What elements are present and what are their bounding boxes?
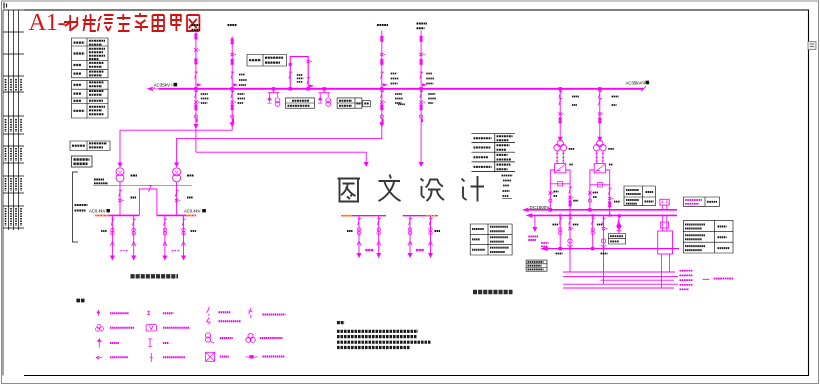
- neg bus outgoing labels: [556, 253, 608, 255]
- LV section caption: [131, 274, 179, 278]
- bus tie bridge: [289, 57, 313, 91]
- svg-text:DC1500V: DC1500V: [530, 205, 551, 210]
- LV bus section I: [95, 214, 139, 216]
- DC feeder 4 below bus: [601, 215, 607, 284]
- branch 2 circuit label: [612, 97, 619, 106]
- service bus A label: [347, 230, 353, 232]
- feeder 1 name label: [192, 25, 201, 30]
- DC 1500V busbar: [524, 208, 678, 217]
- legend sym motor isolator: [205, 333, 210, 338]
- svg-text:AC35kV I: AC35kV I: [154, 82, 173, 87]
- PT branch 1 data table: [286, 98, 315, 108]
- title CJK glyph strokes: [64, 13, 199, 31]
- watermark tu wen she ji: [338, 175, 485, 202]
- DC feeder 3 below bus: [591, 215, 595, 249]
- svg-text:AC35kV/II: AC35kV/II: [626, 80, 645, 85]
- legend sym arrester: [98, 339, 101, 348]
- spare feeder table: [609, 234, 626, 245]
- notes block: [337, 323, 431, 348]
- HV equipment schedule text: [74, 41, 106, 114]
- feeder 2 circuit labels: [238, 75, 248, 104]
- branch 1 device labels: [554, 149, 579, 201]
- left margin revision strip table: [3, 10, 24, 376]
- negative bus label: [541, 243, 549, 246]
- branch 1 circuit label: [572, 97, 579, 106]
- outgoing DC cable runs: [563, 272, 678, 288]
- legend title: [76, 299, 85, 303]
- HV equipment schedule table upper: [72, 38, 109, 118]
- incoming feeder 4: [419, 31, 425, 166]
- DC feeder 2 below bus: [567, 215, 573, 272]
- rectifier transformer branch 2: [588, 88, 613, 216]
- 2T breaker label: [187, 197, 193, 199]
- legend sym operating switch: [248, 308, 252, 318]
- LV feeder 2: [132, 215, 136, 259]
- svg-text:AC0.4kV I: AC0.4kV I: [89, 209, 108, 214]
- rectifier transformer branch 1: [549, 88, 574, 216]
- cable schedule side labels: [502, 176, 513, 199]
- legend sym central signal: [150, 353, 153, 362]
- legend sym voltage box: [146, 325, 156, 332]
- LV feeder 4: [182, 215, 186, 259]
- LV cabinet label box: [72, 156, 93, 167]
- legend sym current transformer: [97, 310, 100, 317]
- station service stub from feeder1 tie: [196, 152, 368, 166]
- LV room note line: [93, 180, 192, 186]
- main HV bus AC35kV: [148, 86, 647, 91]
- LV bus tie: [139, 186, 157, 216]
- legend sym rectifier box: [206, 352, 215, 361]
- legend sym busbar mark: [147, 311, 150, 314]
- feeder 1 circuit labels: [201, 94, 209, 103]
- legend sym isolator: [206, 307, 211, 325]
- DC feeder labels: [553, 224, 603, 226]
- legend sym fuse: [149, 339, 152, 347]
- transformer 1T label: [131, 174, 138, 176]
- traction substation caption: [473, 290, 513, 294]
- bus label AC35kV section I: [154, 82, 178, 87]
- feeder 2 name label: [228, 24, 238, 26]
- incoming feeder 2: [120, 37, 237, 166]
- feeder 4 circuit labels: [426, 74, 436, 104]
- legend sym cable joint: [246, 356, 258, 359]
- LV bus label II: [184, 209, 206, 214]
- LV transformer 1T: [116, 163, 124, 215]
- LV feeder 3: [163, 215, 167, 259]
- DC feeder 1 below bus: [559, 215, 563, 249]
- PT branch 1 on bus I: [267, 88, 280, 107]
- station service table row: [70, 141, 110, 151]
- LV bus orange highlight II: [187, 214, 197, 216]
- cable run destination labels: [680, 271, 734, 290]
- transformer T2 three winding: [597, 140, 603, 146]
- LV feeder labels: [101, 230, 197, 232]
- legend sym rectifier transformer: [248, 333, 253, 338]
- feeder 4 name label: [417, 24, 428, 29]
- DC equipment table right lower: [683, 221, 733, 253]
- DC spare feeder: [617, 215, 621, 233]
- PT branch 2 data table: [337, 98, 370, 108]
- negative return busbar: [542, 247, 679, 250]
- bus tie circuit label: [297, 75, 304, 82]
- incoming feeder 1: [194, 32, 200, 153]
- branch 2 device labels: [593, 149, 620, 202]
- frame corner mark: [4, 3, 7, 9]
- station service bus B: [403, 216, 438, 257]
- incoming feeder 3: [177, 31, 387, 166]
- feeder 3 name label: [377, 24, 388, 26]
- service bus B label: [435, 230, 441, 232]
- negative pole label: [528, 237, 538, 241]
- traction feeder schedule table: [470, 224, 512, 255]
- station service voltage bracket: [73, 172, 88, 242]
- PT branch 2 on bus II: [318, 88, 331, 107]
- LV bus orange highlight I: [95, 214, 109, 216]
- DC bus end device box: [658, 199, 673, 288]
- 1T breaker label: [131, 197, 137, 199]
- DC switch table right: [683, 197, 719, 206]
- transformer 2T label: [187, 174, 194, 176]
- negative feeder stub: [533, 215, 536, 231]
- legend sym live display: [96, 356, 102, 358]
- LV feeder group ellipsis: [120, 250, 179, 252]
- rectifier unit 2: [594, 164, 605, 173]
- transformer T1 three winding: [557, 140, 563, 146]
- LV bus section II: [157, 214, 196, 216]
- HV cable schedule table: [472, 134, 516, 172]
- legend labels: [110, 312, 285, 357]
- DC cable table bottom left: [526, 260, 547, 271]
- svg-text:A1-: A1-: [29, 9, 66, 36]
- svg-text:AC0.4kV II: AC0.4kV II: [184, 209, 204, 214]
- left strip cell text marks: [6, 79, 22, 226]
- drawing title A1 metro mixed substation: [29, 9, 66, 36]
- DC rectifier data table right: [624, 186, 655, 206]
- bus label AC35kV section II: [626, 80, 650, 85]
- LV transformer 2T: [173, 163, 181, 215]
- DC bus junction dots: [559, 214, 620, 250]
- rectifier unit 1: [555, 164, 566, 173]
- right border clip tab: [808, 42, 816, 50]
- bus tie switch table: [247, 55, 287, 67]
- station service bus A: [341, 216, 386, 257]
- LV feeder 1: [110, 215, 114, 259]
- feeder 3 circuit labels: [391, 74, 405, 105]
- LV bus label I: [89, 209, 110, 214]
- legend sym voltage transformer: [97, 325, 101, 329]
- legend group: [96, 307, 258, 363]
